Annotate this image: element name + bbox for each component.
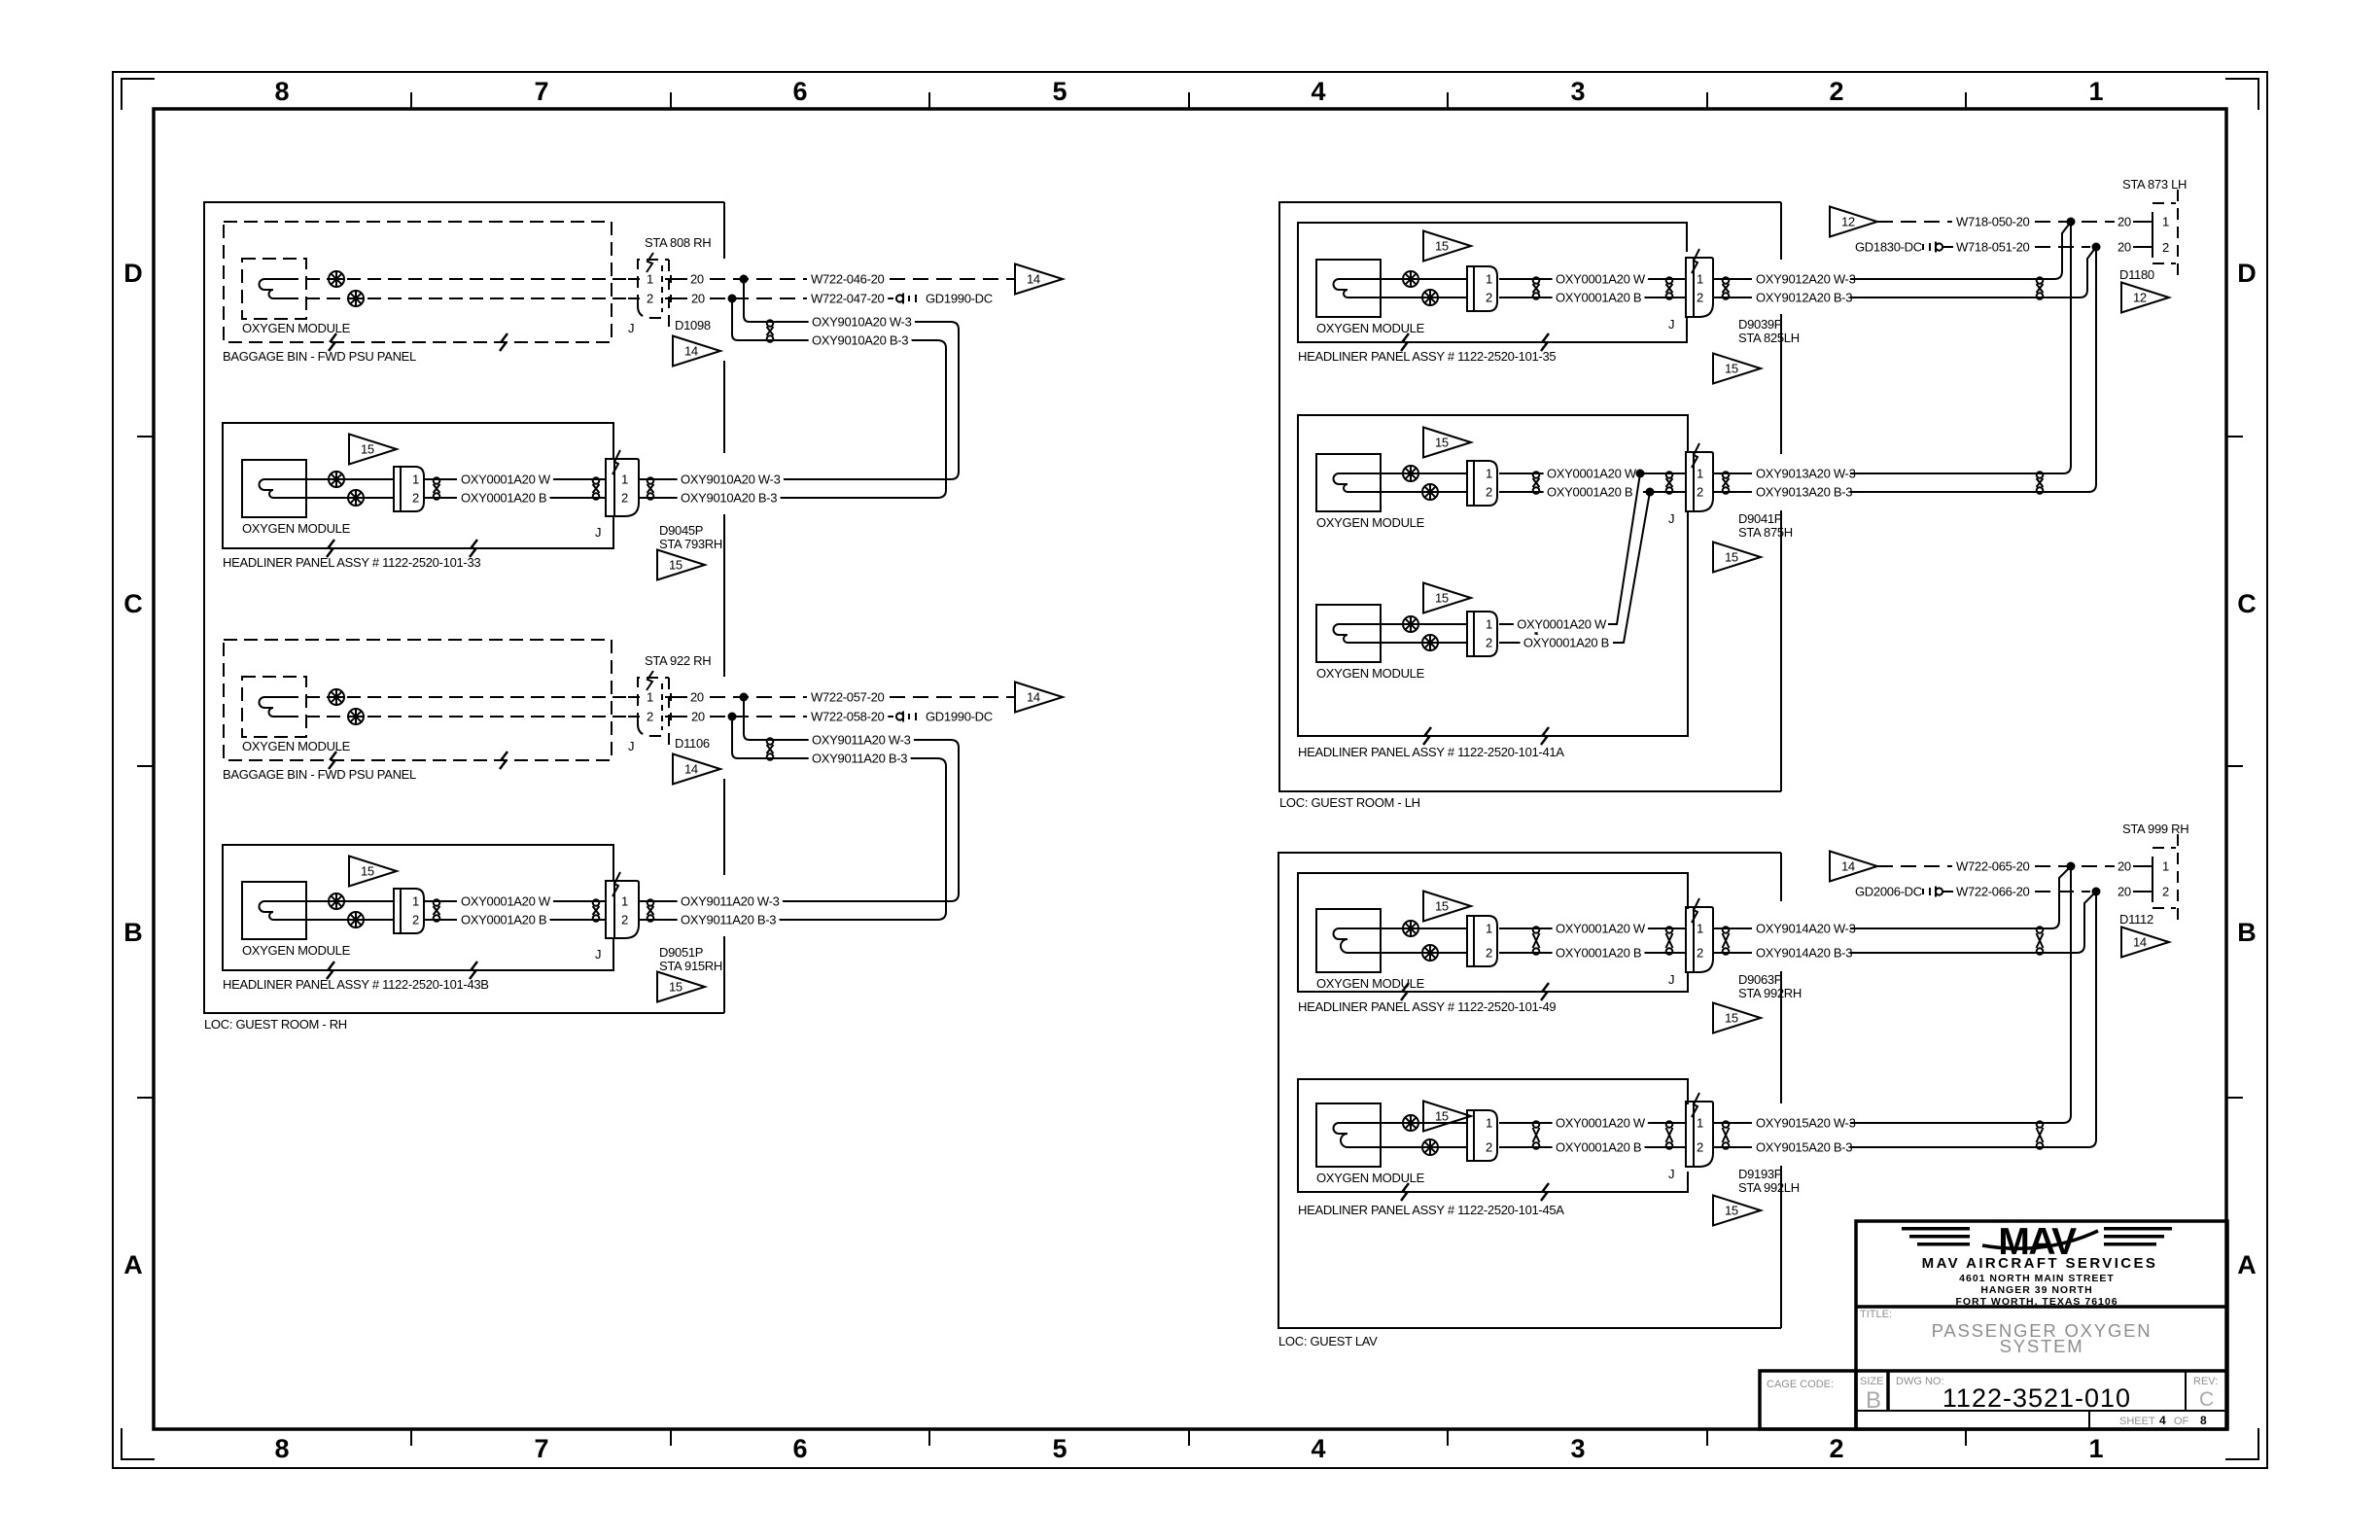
svg-text:OXY0001A20 B: OXY0001A20 B: [461, 913, 546, 927]
heater element in oxygen module (D9039P): [1334, 279, 1382, 297]
svg-text:SIZE: SIZE: [1860, 1376, 1883, 1387]
svg-text:BAGGAGE BIN - FWD PSU PANEL: BAGGAGE BIN - FWD PSU PANEL: [223, 349, 416, 364]
vertical tie OXY9013A20 B-3 to D1180 pin2: [2088, 247, 2096, 492]
group box LOC: GUEST LAV: [1278, 853, 1781, 1328]
twisted pair OXY9015 run: [2037, 1121, 2044, 1149]
flag 15 inside box (101-35): [1423, 231, 1471, 262]
svg-text:1: 1: [1486, 922, 1492, 936]
svg-text:OXY9015A20 W-3: OXY9015A20 W-3: [1756, 1116, 1856, 1131]
svg-text:J: J: [595, 947, 601, 962]
zone numbers bottom: [274, 1434, 2103, 1463]
wire J out row1 (OXY9013A20 W-3): [1713, 472, 1752, 474]
oxygen module (1122-2520-101-43B): [242, 882, 306, 939]
flag 14 below D1112: [2121, 927, 2169, 958]
wire conn to J row1 (D9039P): [1499, 278, 1556, 280]
svg-text:15: 15: [1435, 1109, 1449, 1124]
svg-text:B: B: [1866, 1387, 1881, 1414]
twisted pair before J connector (1122-2520-101-33): [593, 477, 600, 500]
svg-text:J: J: [628, 321, 634, 335]
flag 14 at end of W722-046-20: [1015, 264, 1063, 295]
dashed wire module to connector D1106 row 2: [306, 716, 638, 717]
break mark on baggage bin box bottom left (D1098): [329, 333, 336, 351]
svg-text:OXY0001A20 W: OXY0001A20 W: [1556, 922, 1646, 936]
svg-text:8: 8: [2200, 1414, 2207, 1427]
svg-text:W722-065-20: W722-065-20: [1956, 859, 2030, 874]
oxygen module (41A lower): [1316, 605, 1381, 662]
break mark on box bottom left (101-35): [1401, 333, 1409, 351]
break mark on headliner box bottom left (1122-2520-101-33): [327, 540, 334, 557]
svg-text:D: D: [123, 259, 143, 288]
drop wire OXY9010A20 B-3 from junction: [732, 298, 946, 498]
flag 14 left of W722-065-20: [1830, 852, 1877, 882]
junction dot W722-066-20: [2092, 888, 2101, 896]
module connector (D9063P): [1467, 916, 1497, 966]
svg-text:15: 15: [669, 980, 682, 995]
svg-text:J: J: [1668, 511, 1674, 526]
lamp symbol row 2 (D1098): [348, 291, 364, 306]
lamp symbol row2 (D9041P): [1422, 484, 1438, 500]
svg-text:OXYGEN MODULE: OXYGEN MODULE: [1316, 1171, 1425, 1185]
wire J out row2 (OXY9010A20 B-3): [639, 497, 679, 499]
svg-text:LOC: GUEST ROOM - LH: LOC: GUEST ROOM - LH: [1279, 795, 1420, 810]
svg-text:20: 20: [690, 690, 704, 705]
svg-text:OXYGEN MODULE: OXYGEN MODULE: [1316, 321, 1425, 335]
svg-text:A: A: [2237, 1250, 2257, 1279]
svg-text:OXY9010A20 B-3: OXY9010A20 B-3: [812, 333, 908, 348]
svg-text:2: 2: [647, 292, 653, 306]
twisted pair OXY9013 run: [2037, 472, 2044, 494]
lamp symbol row2 (41A lower): [1422, 635, 1438, 650]
svg-text:STA 793RH: STA 793RH: [659, 537, 722, 551]
svg-text:HEADLINER PANEL ASSY # 1122-25: HEADLINER PANEL ASSY # 1122-2520-101-49: [1298, 999, 1556, 1014]
corner trim mark top-left: [122, 79, 155, 110]
lamp symbol row2 (D9193P): [1422, 1139, 1438, 1155]
divider sheet row: [2088, 1411, 2090, 1429]
svg-text:STA 915RH: STA 915RH: [659, 959, 722, 973]
svg-text:1: 1: [412, 894, 419, 909]
corner trim mark bottom-right: [2225, 1428, 2258, 1459]
dashed wire W722-058-20 segment 2: [888, 716, 893, 717]
svg-text:OXY0001A20 W: OXY0001A20 W: [1517, 617, 1607, 632]
lamp symbol row 1 (D1098): [329, 271, 344, 287]
svg-text:OXY9014A20 B-3: OXY9014A20 B-3: [1756, 946, 1852, 961]
wire OXY9014A20 B-3 bend up to junction: [2069, 892, 2096, 953]
svg-text:OXY9011A20 B-3: OXY9011A20 B-3: [812, 752, 907, 766]
box HEADLINER PANEL ASSY 1122-2520-101-33: [223, 423, 613, 548]
svg-text:2: 2: [1486, 946, 1492, 961]
connector J D9041P: [1686, 443, 1713, 511]
svg-text:BAGGAGE BIN - FWD PSU PANEL: BAGGAGE BIN - FWD PSU PANEL: [223, 767, 416, 782]
group box LOC: GUEST ROOM - RH: [204, 202, 724, 1013]
wire conn to label row1 (41A lower): [1499, 623, 1524, 625]
twisted pair after module connector (D9041P): [1533, 472, 1540, 494]
divider size/dwg: [1886, 1371, 1890, 1411]
junction dot W722-065-20: [2067, 862, 2076, 871]
title block divider above sheet row: [1856, 1410, 2227, 1412]
svg-text:2: 2: [2162, 240, 2169, 255]
svg-text:1: 1: [621, 472, 628, 487]
vertical tie OXY9013A20 W-3 to D1180 pin1: [2063, 222, 2071, 473]
zone numbers top: [274, 77, 2103, 106]
wire conn to label row2 (41A lower): [1499, 642, 1524, 644]
svg-text:OXYGEN MODULE: OXYGEN MODULE: [242, 943, 351, 958]
svg-text:2: 2: [621, 913, 628, 927]
wire J out row2 (OXY9011A20 B-3): [639, 919, 679, 921]
svg-text:B: B: [2237, 918, 2257, 947]
svg-text:W722-046-20: W722-046-20: [811, 272, 885, 287]
svg-text:2: 2: [1697, 291, 1703, 305]
wire OXY9012A20 B-3 bend up to junction: [2072, 247, 2096, 297]
svg-text:1122-3521-010: 1122-3521-010: [1942, 1383, 2131, 1413]
dashed wire W722-057-20 segment: [710, 696, 807, 698]
break mark on box bottom left (101-49): [1401, 983, 1409, 1000]
lamp symbol row1 (41A lower): [1403, 616, 1418, 632]
svg-text:OXY9012A20 B-3: OXY9012A20 B-3: [1756, 291, 1852, 305]
svg-text:OXY9014A20 W-3: OXY9014A20 W-3: [1756, 922, 1856, 936]
svg-text:OXY9013A20 W-3: OXY9013A20 W-3: [1756, 467, 1856, 481]
svg-text:15: 15: [1725, 550, 1738, 565]
wire module to connector row1 (1122-2520-101-33): [306, 478, 394, 480]
shield ground GD1990-DC (D1106): [896, 710, 993, 724]
connector J D9051P: [606, 872, 639, 938]
svg-text:OXY0001A20 W: OXY0001A20 W: [461, 894, 551, 909]
svg-text:J: J: [1668, 1167, 1674, 1181]
svg-text:20: 20: [2117, 859, 2131, 874]
flag 12 left of W718-050-20: [1830, 207, 1877, 237]
heater element in oxygen module (1122-2520-101-33): [260, 479, 307, 498]
MAV logo speed lines left: [1902, 1227, 1970, 1246]
vertical tie OXY9015A20 B-3 to D1112 pin2: [2088, 892, 2096, 1147]
wire OXY9015A20 B-3 run to right: [1850, 1146, 2088, 1148]
title block divider above dwg row: [1856, 1369, 2227, 1373]
svg-text:SYSTEM: SYSTEM: [2000, 1336, 2084, 1356]
oxygen module (dashed, D1098): [242, 259, 306, 319]
svg-text:OXY9010A20 W-3: OXY9010A20 W-3: [681, 472, 781, 487]
svg-text:1: 1: [1697, 1116, 1703, 1131]
svg-text:HEADLINER PANEL ASSY # 1122-25: HEADLINER PANEL ASSY # 1122-2520-101-45A: [1298, 1203, 1564, 1217]
wire conn to J row1 (D9193P): [1499, 1122, 1556, 1124]
svg-text:OXY9012A20 W-3: OXY9012A20 W-3: [1756, 272, 1856, 287]
connector D1098 STA 808 RH: [638, 253, 669, 332]
wire OXY9013A20 B-3 run to right: [1850, 491, 2088, 493]
svg-text:HEADLINER PANEL ASSY # 1122-25: HEADLINER PANEL ASSY # 1122-2520-101-43B: [223, 977, 489, 992]
svg-text:2: 2: [1829, 1434, 1843, 1463]
svg-text:STA 808 RH: STA 808 RH: [645, 235, 711, 250]
dashed wire W722-047-20 segment 2: [888, 297, 893, 299]
oxygen module (D9193P): [1316, 1103, 1381, 1167]
svg-text:2: 2: [1829, 77, 1843, 106]
dashed box BAGGAGE BIN - FWD PSU PANEL (D1098): [224, 222, 612, 342]
svg-text:J: J: [595, 525, 601, 540]
svg-text:D1098: D1098: [675, 318, 711, 332]
svg-text:2: 2: [2162, 885, 2169, 899]
svg-text:D9051P: D9051P: [659, 945, 703, 960]
svg-text:2: 2: [1697, 946, 1703, 961]
svg-text:OXY9011A20 W-3: OXY9011A20 W-3: [681, 894, 780, 909]
svg-text:W722-057-20: W722-057-20: [811, 690, 885, 705]
pin2 stub D1180: [2133, 246, 2152, 248]
svg-text:C: C: [2237, 589, 2257, 618]
zone ticks top border: [411, 92, 1966, 109]
svg-text:2: 2: [1486, 636, 1492, 650]
svg-text:OXY0001A20 B: OXY0001A20 B: [1547, 485, 1632, 500]
svg-text:W722-066-20: W722-066-20: [1956, 885, 2030, 899]
svg-text:OXY0001A20 W: OXY0001A20 W: [461, 472, 551, 487]
svg-text:OXY9010A20 W-3: OXY9010A20 W-3: [812, 315, 912, 330]
svg-text:14: 14: [1841, 859, 1855, 874]
twisted pair OXY9012 run: [2037, 277, 2044, 299]
wire J out row1 (OXY9011A20 W-3): [639, 900, 679, 902]
zone ticks bottom border: [411, 1429, 1966, 1446]
junction dot W718-050-20: [2067, 218, 2076, 227]
title block outer box: [1856, 1221, 2227, 1429]
flag 15 below D9039P: [1713, 354, 1761, 384]
svg-text:1: 1: [1486, 272, 1492, 287]
dashed wire W718-050-20: [1877, 221, 1952, 223]
svg-text:OXY0001A20 B: OXY0001A20 B: [461, 491, 546, 506]
lamp symbol row1 (1122-2520-101-33): [329, 472, 344, 487]
heater element in oxygen module (41A lower): [1334, 624, 1382, 643]
wire module to connector row2 (D9039P): [1381, 297, 1467, 298]
svg-text:1: 1: [412, 472, 419, 487]
module connector (1122-2520-101-43B): [394, 889, 424, 933]
module connector (D9041P): [1467, 461, 1497, 506]
svg-text:1: 1: [1697, 467, 1703, 481]
svg-text:2: 2: [1486, 485, 1492, 500]
svg-text:1: 1: [2162, 859, 2169, 874]
wire conn to J row2 (D9193P): [1499, 1146, 1556, 1148]
svg-text:D9039P: D9039P: [1738, 317, 1782, 332]
dashed wire module to connector D1098 row 2: [306, 297, 638, 299]
svg-text:LOC: GUEST LAV: LOC: GUEST LAV: [1278, 1334, 1378, 1348]
right edge of LOC LH group box (with wire gaps): [1780, 202, 1782, 791]
flag 15 below D9051P: [657, 972, 705, 1002]
twisted pair after J (D9041P): [1723, 472, 1730, 494]
wire module to connector row2 (D9041P): [1381, 491, 1467, 493]
connector D1112 STA 999 RH (dashed): [2152, 834, 2178, 922]
svg-text:6: 6: [792, 77, 807, 106]
svg-text:STA 875H: STA 875H: [1738, 525, 1793, 540]
svg-text:STA 922 RH: STA 922 RH: [645, 653, 711, 668]
twisted pair after module connector (D9063P): [1533, 927, 1540, 955]
box HEADLINER PANEL ASSY 1122-2520-101-43B: [223, 845, 613, 970]
svg-text:14: 14: [1027, 690, 1040, 705]
break mark on box bottom left (101-45A): [1401, 1183, 1409, 1201]
box HEADLINER PANEL ASSY 1122-2520-101-49: [1298, 873, 1688, 992]
shield ground GD1990-DC (D1098): [896, 292, 993, 306]
svg-text:OXYGEN MODULE: OXYGEN MODULE: [1316, 515, 1425, 530]
svg-text:OXY0001A20 W: OXY0001A20 W: [1556, 272, 1646, 287]
svg-text:1: 1: [647, 690, 653, 705]
svg-text:W722-058-20: W722-058-20: [811, 710, 885, 724]
shield ground GD2006-DC: [1855, 885, 1953, 899]
pin stubs D1106: [628, 693, 687, 720]
connector J D9063P: [1686, 898, 1713, 972]
wire conn to J row2 (D9063P): [1499, 952, 1556, 954]
svg-text:15: 15: [1435, 591, 1449, 606]
svg-text:LOC: GUEST ROOM - RH: LOC: GUEST ROOM - RH: [204, 1017, 347, 1032]
svg-text:14: 14: [684, 344, 698, 359]
lamp symbol row1 (D9041P): [1403, 466, 1418, 481]
svg-text:4: 4: [2159, 1414, 2166, 1427]
svg-text:2: 2: [1697, 485, 1703, 500]
pin stubs D1098: [628, 275, 687, 302]
svg-text:D: D: [2237, 259, 2257, 288]
svg-text:MAV AIRCRAFT SERVICES: MAV AIRCRAFT SERVICES: [1922, 1255, 2158, 1272]
flag 14 below D1106: [673, 754, 720, 785]
svg-text:15: 15: [1725, 1011, 1738, 1026]
wire OXY9012A20 B-3 run to right: [1850, 297, 2072, 298]
svg-text:REV:: REV:: [2193, 1376, 2218, 1387]
dashed wire W722-057-20 segment 2: [890, 696, 1015, 698]
wire J out row2 (OXY9012A20 B-3): [1713, 297, 1752, 298]
dashed wire W722-058-20 segment: [710, 716, 807, 717]
twisted pair before J connector (1122-2520-101-43B): [593, 899, 600, 922]
twisted pair after module connector (D9193P): [1533, 1121, 1540, 1149]
svg-text:12: 12: [2133, 291, 2147, 305]
svg-text:OXY0001A20 B: OXY0001A20 B: [1523, 636, 1609, 650]
svg-text:OXYGEN MODULE: OXYGEN MODULE: [1316, 976, 1425, 991]
svg-text:1: 1: [1697, 272, 1703, 287]
wire module to connector row1 (D9193P): [1381, 1122, 1467, 1124]
drop wire OXY9011A20 W-3 from junction: [744, 697, 959, 901]
svg-text:1: 1: [1486, 617, 1492, 632]
svg-text:5: 5: [1052, 77, 1067, 106]
svg-text:15: 15: [1435, 436, 1449, 450]
module connector (1122-2520-101-33): [394, 467, 424, 511]
wire module to connector row2 (D9193P): [1381, 1146, 1467, 1148]
dashed box BAGGAGE BIN - FWD PSU PANEL (D1106): [224, 640, 612, 760]
wire conn to J row2 (1122-2520-101-43B): [424, 919, 457, 921]
svg-text:1: 1: [2088, 1434, 2103, 1463]
lamp symbol row1 (D9039P): [1403, 271, 1418, 287]
svg-text:2: 2: [412, 913, 419, 927]
twisted pair after J (1122-2520-101-43B): [647, 899, 654, 922]
box HEADLINER PANEL ASSY 1122-2520-101-41A: [1298, 415, 1688, 736]
svg-text:D9063P: D9063P: [1738, 972, 1782, 987]
svg-text:12: 12: [1841, 215, 1855, 229]
svg-text:OXY0001A20 W: OXY0001A20 W: [1547, 467, 1637, 481]
svg-text:STA 999 RH: STA 999 RH: [2122, 822, 2188, 836]
break mark on headliner box bottom right (1122-2520-101-33): [470, 540, 477, 557]
wire OXY9015A20 W-3 run to right: [1850, 1122, 2063, 1124]
flag 15 below D9193P: [1713, 1196, 1761, 1226]
lamp symbol row 2 (D1106): [348, 709, 364, 724]
svg-text:1: 1: [621, 894, 628, 909]
wire OXY9014A20 W-3 run to right: [1850, 927, 2044, 929]
wire module to connector row1 (D9039P): [1381, 278, 1467, 280]
junction dot W722-047-20: [728, 295, 737, 303]
heater element in oxygen module (D9063P): [1334, 928, 1382, 953]
svg-text:8: 8: [274, 77, 289, 106]
twisted pair after module connector (D9039P): [1533, 277, 1540, 299]
lamp symbol row1 (D9193P): [1403, 1115, 1418, 1131]
dashed wire W718-051-20: [2035, 246, 2090, 248]
wire module to connector row2 (41A lower): [1381, 642, 1467, 644]
wire conn to J row1 (1122-2520-101-33): [424, 478, 457, 480]
svg-text:2: 2: [1486, 291, 1492, 305]
svg-text:D9041P: D9041P: [1738, 511, 1782, 526]
svg-text:OXY9015A20 B-3: OXY9015A20 B-3: [1756, 1140, 1852, 1155]
twisted pair after J (D9039P): [1723, 277, 1730, 299]
svg-text:15: 15: [361, 864, 374, 879]
flag 15 above lower module (41A): [1423, 583, 1471, 613]
break mark on box bottom right (101-45A): [1541, 1183, 1549, 1201]
svg-text:1: 1: [1486, 1116, 1492, 1131]
flag 15 inside box (101-49): [1423, 892, 1471, 922]
junction dot W722-046-20: [740, 275, 749, 284]
flag 15 below D9063P: [1713, 1003, 1761, 1033]
svg-text:14: 14: [684, 762, 698, 777]
connector J D9193P: [1686, 1093, 1713, 1167]
pin1 stub D1112: [2133, 865, 2152, 867]
svg-text:OXY0001A20 W: OXY0001A20 W: [1556, 1116, 1646, 1131]
MAV logo speed lines right: [2104, 1227, 2172, 1246]
svg-text:7: 7: [534, 1434, 548, 1463]
corner trim mark bottom-left: [122, 1428, 155, 1459]
dashed wire W722-065-20: [1877, 865, 1952, 867]
module connector (41A lower): [1467, 612, 1497, 656]
svg-text:D1112: D1112: [2119, 912, 2153, 927]
flag 15 below D9045P: [657, 550, 705, 580]
dashed wire module to connector D1106 row 1: [306, 696, 638, 698]
connector J D9045P: [606, 450, 639, 516]
wire OXY9014A20 B-3 run to right: [1850, 952, 2069, 954]
svg-text:J: J: [628, 739, 634, 753]
svg-text:14: 14: [1027, 272, 1040, 287]
right edge of LOC LAV group box (with wire gaps): [1780, 853, 1782, 1328]
wire conn to J row1 (D9063P): [1499, 927, 1556, 929]
lamp symbol row2 (D9039P): [1422, 290, 1438, 305]
svg-text:3: 3: [1570, 77, 1585, 106]
break mark on box bottom right (101-41A): [1541, 727, 1549, 745]
inner border frame: [154, 109, 2226, 1429]
wire J out row1 (OXY9010A20 W-3): [639, 478, 679, 480]
wire J out row2 (OXY9013A20 B-3): [1713, 491, 1752, 493]
svg-text:STA 992RH: STA 992RH: [1738, 986, 1802, 1000]
svg-text:7: 7: [534, 77, 548, 106]
svg-text:8: 8: [274, 1434, 289, 1463]
flag 14 at end of W722-057-20: [1015, 682, 1063, 713]
svg-text:HEADLINER PANEL ASSY # 1122-25: HEADLINER PANEL ASSY # 1122-2520-101-33: [223, 555, 480, 570]
svg-text:2: 2: [1486, 1140, 1492, 1155]
svg-text:GD1990-DC: GD1990-DC: [926, 292, 993, 306]
lamp symbol row2 (1122-2520-101-33): [348, 490, 364, 506]
zone ticks left border: [137, 437, 154, 1098]
svg-text:STA 873 LH: STA 873 LH: [2122, 177, 2187, 192]
svg-text:DWG NO:: DWG NO:: [1896, 1376, 1944, 1387]
wire J out row2 (OXY9015A20 B-3): [1713, 1146, 1752, 1148]
break mark on baggage bin box bottom right (D1098): [500, 333, 507, 351]
pin1 stub D1180: [2133, 221, 2152, 223]
svg-text:15: 15: [1435, 239, 1449, 254]
break mark on box bottom right (101-35): [1541, 333, 1549, 351]
wire module to connector row1 (D9063P): [1381, 927, 1467, 929]
twisted pair after J (D9063P): [1723, 927, 1730, 955]
twisted pair before J connector (D9041P): [1666, 472, 1673, 494]
svg-text:C: C: [2199, 1388, 2214, 1411]
svg-text:15: 15: [1725, 1204, 1738, 1218]
wire OXY9012A20 W-3 bend up to junction: [2047, 222, 2071, 279]
cage code box: [1760, 1371, 1856, 1429]
svg-text:2: 2: [647, 710, 653, 724]
svg-text:A: A: [123, 1250, 143, 1279]
svg-text:W718-050-20: W718-050-20: [1956, 215, 2030, 229]
right edge of LOC RH group box (with wire gaps): [723, 202, 725, 1013]
oxygen module (D9039P): [1316, 260, 1381, 317]
lamp symbol row2 (1122-2520-101-43B): [348, 912, 364, 927]
oxygen module (D9063P): [1316, 909, 1381, 972]
